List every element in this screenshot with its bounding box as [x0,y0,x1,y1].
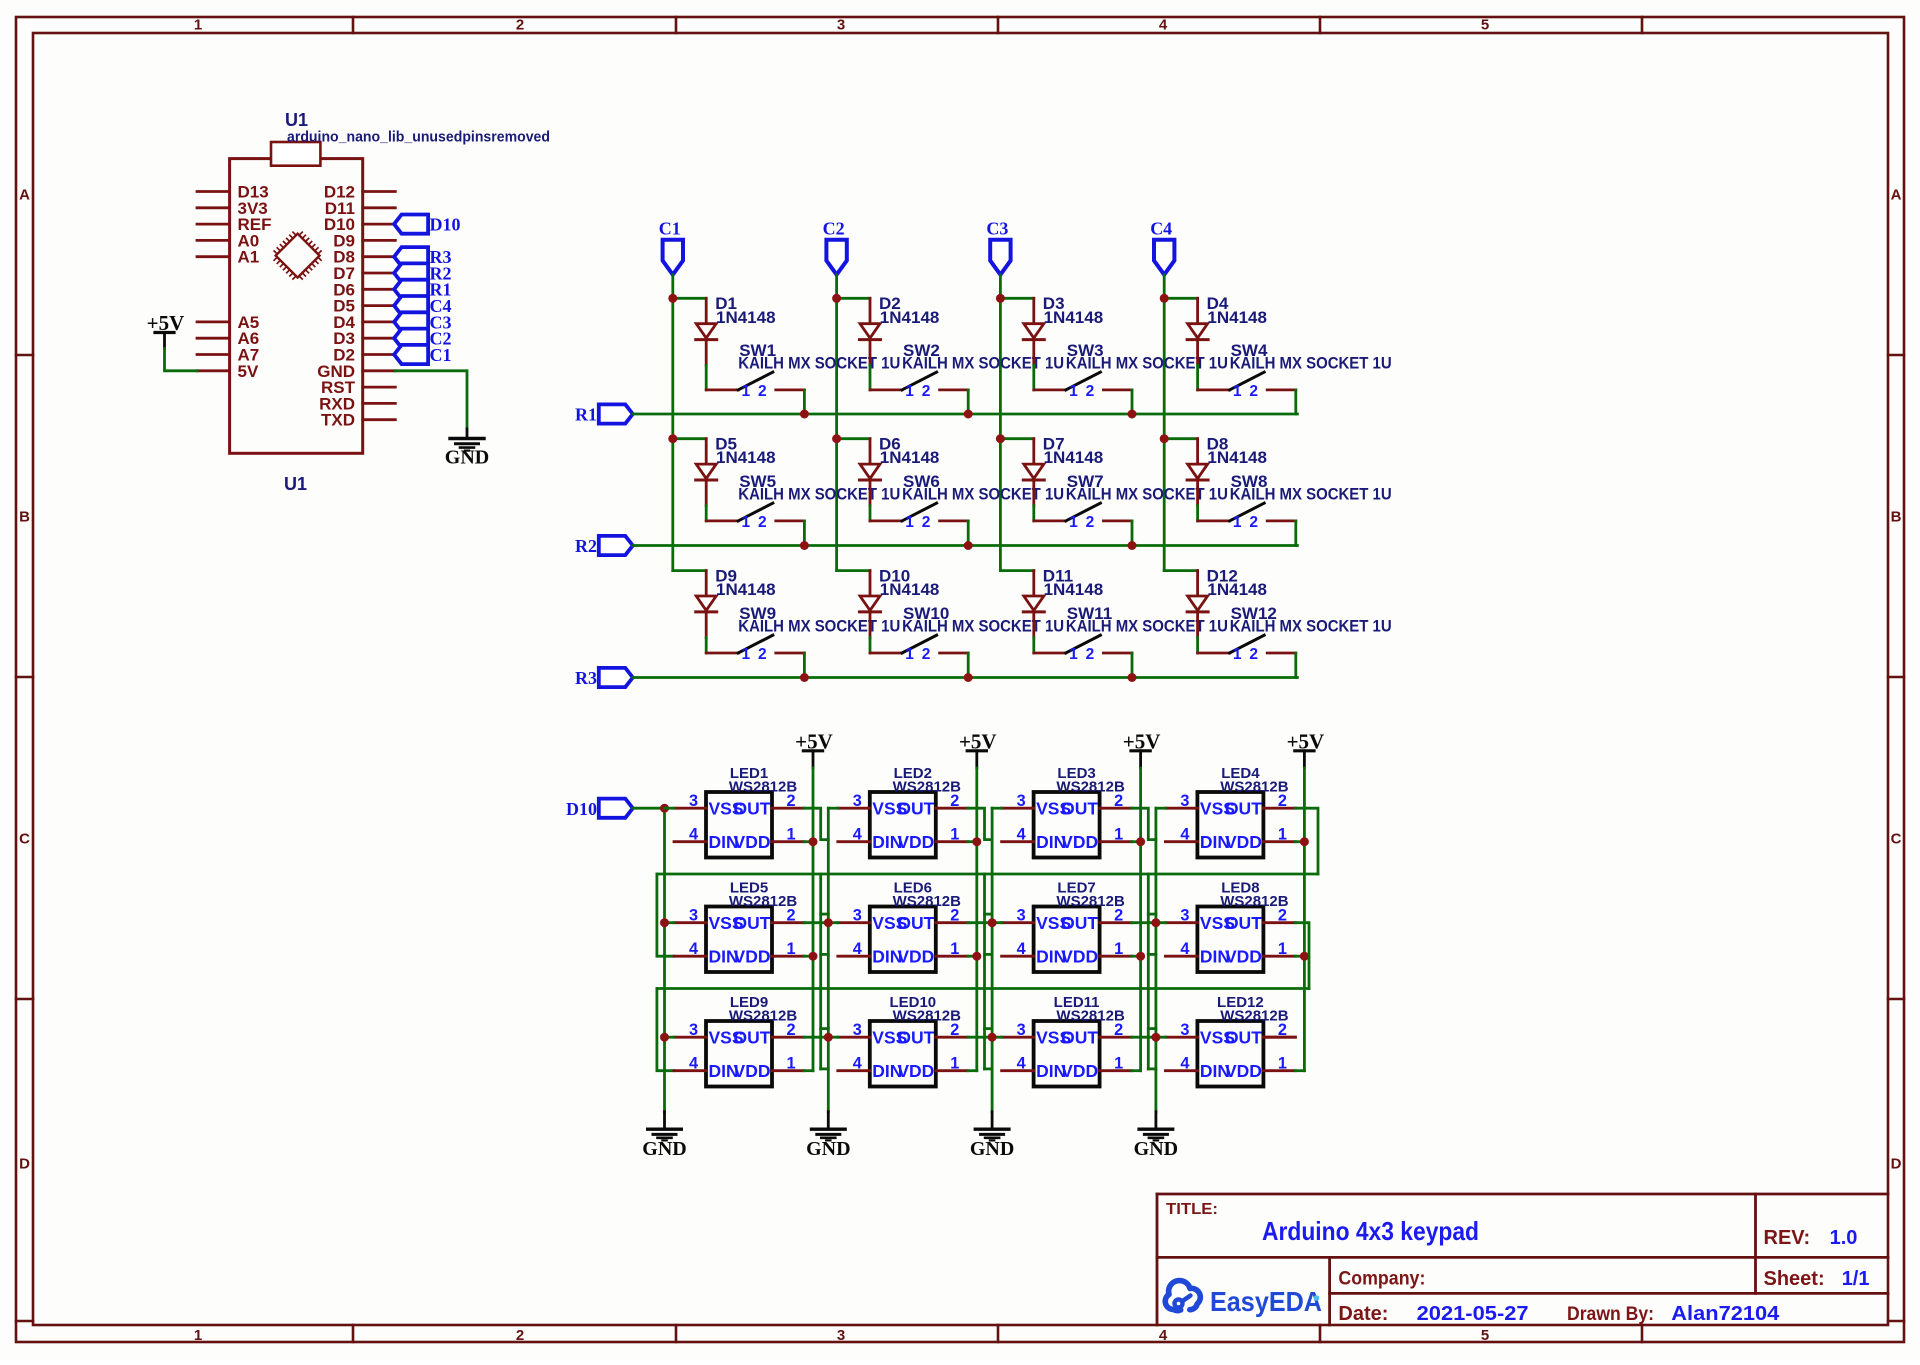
svg-text:GND: GND [445,447,489,469]
junction on R1 col 3 [1128,410,1137,419]
LED10 pin 2 OUT [936,1036,968,1039]
wire OUT LED9 to VSS LED10 [804,1036,838,1039]
svg-text:1.0: 1.0 [1830,1227,1858,1249]
ground symbol LED column 2 [827,1112,830,1130]
wire LED5 VDD to +5V rail [804,955,813,958]
LED1 pin 1 VDD [772,840,804,843]
svg-text:Drawn By:: Drawn By: [1567,1304,1654,1325]
U1 pin 5V [197,369,230,372]
LED2 pin 4 DIN [838,840,870,843]
LED8 pin 3 VSS [1165,921,1197,924]
wire VSS bus column 2 [827,808,830,1111]
svg-text:2: 2 [758,383,767,400]
svg-text:GND: GND [642,1138,686,1160]
svg-text:2: 2 [1278,907,1287,925]
svg-text:1: 1 [1069,514,1078,531]
LED3 pin 1 VDD [1100,840,1132,843]
junction on R3 col 1 [800,673,809,682]
svg-text:R3: R3 [575,668,597,688]
svg-text:4: 4 [853,826,862,844]
svg-text:KAILH MX SOCKET 1U: KAILH MX SOCKET 1U [902,355,1064,373]
wire diode D4 to switch SW4 [1196,365,1199,390]
LED4 pin 4 DIN [1165,840,1197,843]
LED1 pin 4 DIN [674,840,706,843]
switch SW11 KAILH MX SOCKET 1U [1066,635,1101,653]
diode D3 1N4148 [1032,298,1035,323]
svg-text:KAILH MX SOCKET 1U: KAILH MX SOCKET 1U [1230,355,1392,373]
LED9 WS2812B body [706,1021,772,1087]
svg-text:1: 1 [1069,646,1078,663]
wire switch SW3 pin 2 to row R1 [1131,390,1134,414]
svg-text:4: 4 [1017,940,1026,958]
switch SW6 KAILH MX SOCKET 1U [902,503,937,521]
svg-text:2: 2 [1086,514,1095,531]
wire column C1 to diode D9 [673,569,706,572]
U1 pin D2 [363,353,396,356]
svg-text:D10: D10 [566,799,597,819]
wire +5V rail column 1 [812,768,815,1071]
switch SW1 KAILH MX SOCKET 1U [738,372,773,390]
LED9 pin 2 OUT [772,1036,804,1039]
junction on R1 col 2 [964,410,973,419]
wire OUT LED8 to rail2 [1295,923,1309,989]
diode D12 1N4148 [1196,571,1199,596]
net flag R1 [599,404,633,423]
switch SW7 KAILH MX SOCKET 1U [1066,503,1101,521]
svg-text:1: 1 [1278,940,1287,958]
junction VSS LED7 [988,918,997,927]
LED3 pin 3 VSS [1002,807,1034,810]
svg-text:KAILH MX SOCKET 1U: KAILH MX SOCKET 1U [902,618,1064,636]
U1 pin D12 [363,190,396,193]
svg-text:2: 2 [1086,383,1095,400]
wire switch SW12 pin 2 to row R3 [1294,653,1297,678]
svg-text:4: 4 [1180,826,1189,844]
svg-text:4: 4 [1180,1055,1189,1073]
net flag R3 at U1 [394,247,428,266]
LED12 pin 1 VDD [1263,1069,1295,1072]
svg-text:4: 4 [1017,1055,1026,1073]
svg-text:4: 4 [689,1055,698,1073]
U1 usb connector rect [271,142,320,166]
svg-text:OUT: OUT [1225,913,1262,933]
LED12 pin 3 VSS [1165,1036,1197,1039]
net flag C4 at U1 [394,296,428,315]
wire row R3 [633,676,1298,679]
junction VSS LED9 [660,1033,669,1042]
wire diode D3 to switch SW3 [1032,365,1035,390]
diode D4 1N4148 [1196,298,1199,323]
LED11 WS2812B body [1034,1021,1100,1087]
junction VDD LED5 [809,952,818,961]
svg-text:VDD: VDD [1225,832,1262,852]
junction on C3 row 1 [996,294,1005,303]
svg-text:1N4148: 1N4148 [880,580,940,599]
wire row R2 [633,544,1298,547]
junction VDD LED6 [972,952,981,961]
switch SW4 KAILH MX SOCKET 1U [1230,372,1265,390]
wire diode D8 to switch SW8 [1196,506,1199,521]
wire column C3 to diode D3 [1000,297,1033,300]
op-amp U1 arduino_nano_lib_unusedpinsremoved body [230,159,363,454]
svg-text:KAILH MX SOCKET 1U: KAILH MX SOCKET 1U [738,618,900,636]
svg-text:3: 3 [853,907,862,925]
wire VSS bus to LED9 [665,1036,675,1039]
svg-text:OUT: OUT [897,1028,934,1048]
wire switch SW1 pin 2 to row R1 [803,390,806,414]
svg-text:REV:: REV: [1764,1227,1811,1249]
wire bus link col 4 rail1-rail2 [1147,874,1150,989]
svg-text:KAILH MX SOCKET 1U: KAILH MX SOCKET 1U [738,486,900,504]
svg-text:4: 4 [1159,1327,1168,1344]
LED3 pin 2 OUT [1100,807,1132,810]
svg-text:5: 5 [1481,17,1489,34]
svg-text:1N4148: 1N4148 [1044,580,1104,599]
ground symbol LED column 4 [1155,1112,1158,1130]
wire OUT LED10 to VSS LED11 [968,1036,1002,1039]
junction VDD LED2 [972,837,981,846]
junction VSS LED11 [988,1033,997,1042]
svg-text:2: 2 [922,383,931,400]
svg-text:3: 3 [689,907,698,925]
LED4 pin 2 OUT [1263,807,1295,810]
U1 pin D6 [363,288,396,291]
wire column C2 to diode D10 [837,569,870,572]
svg-text:3: 3 [1180,1021,1189,1039]
U1 pin TXD [363,418,396,421]
svg-text:C1: C1 [659,219,681,239]
svg-text:1: 1 [950,940,959,958]
wire OUT LED11 to VSS LED12 [1132,1036,1166,1039]
svg-text:R2: R2 [575,536,597,556]
wire rail OUT row1 to DIN row2 [657,873,1318,876]
junction on R2 col 3 [1128,541,1137,550]
ground symbol LED column 1 [663,1112,666,1130]
svg-text:2: 2 [1249,514,1258,531]
LED7 pin 4 DIN [1002,955,1034,958]
wire LED1 VDD to +5V rail [804,840,813,843]
svg-text:D10: D10 [430,214,461,234]
LED3 pin 4 DIN [1002,840,1034,843]
LED2 WS2812B body [870,792,936,858]
svg-text:1: 1 [741,383,750,400]
svg-text:2: 2 [922,646,931,663]
svg-text:4: 4 [1017,826,1026,844]
LED7 WS2812B body [1034,907,1100,973]
wire column C4 [1163,275,1166,571]
wire switch SW10 pin 2 to row R3 [967,653,970,678]
svg-text:OUT: OUT [1225,799,1262,819]
svg-text:1N4148: 1N4148 [880,308,940,327]
wire bus link col 3 rail1-rail2 [983,874,986,989]
U1 pin RST [363,386,396,389]
LED10 WS2812B body [870,1021,936,1087]
wire switch SW4 pin 2 to row R1 [1294,390,1297,414]
LED5 WS2812B body [706,907,772,973]
LED6 pin 3 VSS [838,921,870,924]
svg-text:1: 1 [786,1055,795,1073]
wire column C1 [671,275,674,571]
switch SW3 KAILH MX SOCKET 1U [1066,372,1101,390]
ground symbol LED column 3 [991,1112,994,1130]
svg-text:OUT: OUT [897,799,934,819]
wire LED4 VDD to +5V rail [1295,840,1304,843]
diode D9 1N4148 [705,571,708,596]
svg-text:arduino_nano_lib_unusedpinsrem: arduino_nano_lib_unusedpinsremoved [287,129,550,146]
svg-text:VDD: VDD [1225,1061,1262,1081]
U1 pin D5 [363,304,396,307]
svg-text:1N4148: 1N4148 [716,448,776,467]
wire diode D11 to switch SW11 [1032,638,1035,653]
switch SW9 KAILH MX SOCKET 1U [738,635,773,653]
junction VDD LED3 [1136,837,1145,846]
svg-text:4: 4 [1180,940,1189,958]
wire diode D6 to switch SW6 [869,506,872,521]
wire column C2 to diode D6 [837,437,870,440]
svg-text:2: 2 [516,17,524,34]
LED9 pin 1 VDD [772,1069,804,1072]
LED5 pin 4 DIN [674,955,706,958]
U1 pin D10 [363,223,396,226]
junction on C4 row 1 [1160,294,1169,303]
junction on R3 col 3 [1128,673,1137,682]
junction VDD LED4 [1300,837,1309,846]
LED6 pin 2 OUT [936,921,968,924]
wire VSS bus column 4 [1155,808,1158,1111]
svg-text:1: 1 [905,383,914,400]
svg-text:1: 1 [1278,826,1287,844]
svg-text:OUT: OUT [734,913,771,933]
wire column C4 to diode D8 [1164,437,1197,440]
svg-text:1N4148: 1N4148 [1207,308,1267,327]
wire LED7 VDD to +5V rail [1132,955,1141,958]
svg-text:2021-05-27: 2021-05-27 [1417,1303,1529,1325]
LED7 pin 1 VDD [1100,955,1132,958]
wire VSS bus to LED5 [665,921,675,924]
LED5 pin 2 OUT [772,921,804,924]
LED9 pin 3 VSS [674,1036,706,1039]
svg-text:5V: 5V [238,362,259,381]
svg-text:1/1: 1/1 [1842,1268,1870,1290]
svg-text:3: 3 [1017,1021,1026,1039]
EasyEDA logo [1165,1281,1200,1311]
svg-text:OUT: OUT [734,799,771,819]
wire diode D10 to switch SW10 [869,638,872,653]
net flag C2 at U1 [394,329,428,348]
svg-text:4: 4 [853,1055,862,1073]
U1 pin RXD [363,402,396,405]
svg-text:1N4148: 1N4148 [1207,580,1267,599]
svg-text:U1: U1 [284,474,307,494]
LED10 pin 4 DIN [838,1069,870,1072]
svg-text:GND: GND [1134,1138,1178,1160]
LED6 WS2812B body [870,907,936,973]
wire column C2 [835,275,838,571]
svg-text:1N4148: 1N4148 [716,308,776,327]
svg-text:4: 4 [853,940,862,958]
LED1 WS2812B body [706,792,772,858]
svg-text:1: 1 [905,514,914,531]
svg-text:C3: C3 [986,219,1008,239]
diode D6 1N4148 [869,439,872,464]
svg-text:GND: GND [806,1138,850,1160]
svg-text:2: 2 [516,1327,524,1344]
svg-text:3: 3 [837,1327,845,1344]
diode D11 1N4148 [1032,571,1035,596]
LED12 pin 4 DIN [1165,1069,1197,1072]
junction VSS LED12 [1151,1033,1160,1042]
svg-text:VDD: VDD [897,832,934,852]
wire VSS bus 4 to LED4 [1156,807,1166,810]
svg-text:2: 2 [1114,907,1123,925]
wire row R1 [633,413,1298,416]
svg-text:3: 3 [1180,907,1189,925]
svg-text:KAILH MX SOCKET 1U: KAILH MX SOCKET 1U [1230,486,1392,504]
svg-text:1: 1 [786,940,795,958]
junction on C1 row 1 [668,294,677,303]
svg-text:1N4148: 1N4148 [1207,448,1267,467]
wire OUT LED7 to VSS LED8 [1132,921,1166,924]
svg-text:C2: C2 [823,219,845,239]
wire D10 to LED1 VSS [633,807,665,810]
diode D10 1N4148 [869,571,872,596]
wire switch SW6 pin 2 to row R2 [967,521,970,546]
svg-text:2: 2 [758,646,767,663]
junction VSS LED6 [824,918,833,927]
svg-text:VDD: VDD [897,1061,934,1081]
svg-text:1: 1 [1114,826,1123,844]
net flag R2 at U1 [394,263,428,282]
svg-text:1: 1 [194,17,202,34]
title block frame [1157,1193,1888,1196]
svg-text:2: 2 [786,792,795,810]
diode D2 1N4148 [869,298,872,323]
U1 pin GND [363,369,396,372]
svg-text:Arduino 4x3 keypad: Arduino 4x3 keypad [1262,1216,1479,1246]
LED6 pin 4 DIN [838,955,870,958]
svg-text:VDD: VDD [734,1061,771,1081]
svg-text:VDD: VDD [1225,947,1262,967]
junction on C1 row 2 [668,434,677,443]
wire LED10 VDD to +5V rail [968,1069,977,1072]
U1 pin A0 [197,239,230,242]
wire switch SW7 pin 2 to row R2 [1131,521,1134,546]
wire switch SW9 pin 2 to row R3 [803,653,806,678]
wire OUT LED1 drop to rail1 [804,808,828,839]
net flag C1 at U1 [394,345,428,364]
wire rail OUT row2 to DIN row3 [657,987,1309,990]
U1 pin A1 [197,255,230,258]
wire +5V rail column 4 [1303,768,1306,1071]
LED2 pin 2 OUT [936,807,968,810]
wire bus link col 2 rail1-rail2 [819,874,822,989]
svg-text:1: 1 [1114,1055,1123,1073]
svg-text:2: 2 [1249,646,1258,663]
svg-text:B: B [19,509,30,526]
svg-text:OUT: OUT [897,913,934,933]
svg-text:D: D [1891,1156,1902,1173]
LED3 WS2812B body [1034,792,1100,858]
LED10 pin 3 VSS [838,1036,870,1039]
svg-text:1: 1 [1233,514,1242,531]
svg-text:Date:: Date: [1338,1303,1388,1325]
svg-text:3: 3 [853,1021,862,1039]
LED10 pin 1 VDD [936,1069,968,1072]
wire VSS bus 2 to LED2 [828,807,838,810]
net flag R2 [599,536,633,555]
svg-text:U1: U1 [285,110,308,130]
svg-text:1N4148: 1N4148 [880,448,940,467]
svg-text:1: 1 [1069,383,1078,400]
wire OUT LED12 stub [1263,1036,1295,1039]
LED7 pin 3 VSS [1002,921,1034,924]
wire diode D9 to switch SW9 [705,638,708,653]
wire LED3 VDD to +5V rail [1132,840,1141,843]
wire U1 GND pin to ground [395,371,467,429]
svg-text:KAILH MX SOCKET 1U: KAILH MX SOCKET 1U [1230,618,1392,636]
wire bus link col 3 rail2-row3 [983,989,986,1069]
svg-text:TITLE:: TITLE: [1166,1201,1218,1218]
svg-text:2: 2 [950,1021,959,1039]
svg-text:1: 1 [1278,1055,1287,1073]
svg-text:C: C [1891,831,1902,848]
wire column C3 to diode D7 [1000,437,1033,440]
svg-text:OUT: OUT [1061,1028,1098,1048]
LED2 pin 3 VSS [838,807,870,810]
U1 pin REF [197,223,230,226]
svg-text:2: 2 [786,907,795,925]
svg-text:VDD: VDD [734,947,771,967]
svg-text:2: 2 [786,1021,795,1039]
svg-text:1N4148: 1N4148 [1044,448,1104,467]
svg-text:1: 1 [741,646,750,663]
LED4 pin 1 VDD [1263,840,1295,843]
svg-text:OUT: OUT [734,1028,771,1048]
svg-text:3: 3 [1017,907,1026,925]
junction on C3 row 2 [996,434,1005,443]
svg-text:Company:: Company: [1338,1269,1425,1290]
wire VSS bus column 3 [991,808,994,1111]
wire +5V rail column 3 [1139,768,1142,1071]
diode D1 1N4148 [705,298,708,323]
wire OUT LED2 drop to rail1 [968,808,992,839]
net flag C3 at U1 [394,312,428,331]
svg-text:KAILH MX SOCKET 1U: KAILH MX SOCKET 1U [1066,355,1228,373]
LED8 pin 2 OUT [1263,921,1295,924]
LED2 pin 1 VDD [936,840,968,843]
net flag D10 at LED chain [599,799,633,818]
svg-text:2: 2 [950,907,959,925]
wire VSS bus column 1 [663,808,666,1111]
wire diode D5 to switch SW5 [705,506,708,521]
svg-text:GND: GND [970,1138,1014,1160]
svg-text:1: 1 [950,826,959,844]
svg-text:1: 1 [1233,646,1242,663]
svg-text:C1: C1 [430,345,452,365]
wire switch SW2 pin 2 to row R1 [967,390,970,414]
junction on C4 row 2 [1160,434,1169,443]
svg-text:TXD: TXD [321,411,355,430]
wire bus link col 2 rail2-row3 [819,989,822,1069]
switch SW12 KAILH MX SOCKET 1U [1230,635,1265,653]
svg-text:A: A [1891,187,1902,204]
wire LED11 VDD to +5V rail [1132,1069,1141,1072]
U1 chip icon [268,226,327,285]
svg-text:2: 2 [1278,792,1287,810]
svg-text:1: 1 [905,646,914,663]
wire LED9 VDD to +5V rail [804,1069,813,1072]
wire diode D2 to switch SW2 [869,365,872,390]
